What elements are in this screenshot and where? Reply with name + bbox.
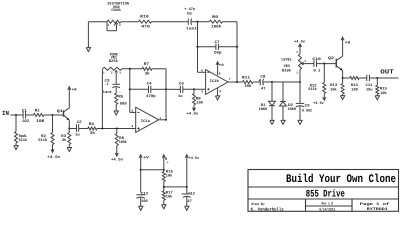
svg-text:10u: 10u <box>366 88 373 93</box>
resistor R1 <box>34 108 45 124</box>
resistor R17 <box>162 191 173 205</box>
resistor R14 <box>350 77 359 93</box>
svg-text:+9: +9 <box>345 40 351 45</box>
wire <box>253 81 260 83</box>
svg-text:OUT: OUT <box>380 69 394 76</box>
wire <box>342 41 344 56</box>
node <box>236 46 238 48</box>
wire <box>129 69 131 113</box>
svg-text:10K: 10K <box>36 119 45 124</box>
node <box>116 127 118 129</box>
svg-text:1N60: 1N60 <box>259 107 268 112</box>
ground pin4 <box>215 88 221 100</box>
node <box>299 81 301 83</box>
wire <box>88 21 107 23</box>
ground <box>67 148 71 152</box>
svg-text:+9: +9 <box>72 87 78 92</box>
resistor R7 <box>142 62 152 76</box>
wire <box>183 88 206 90</box>
potentiometer VR3 LEVEL <box>281 51 314 75</box>
node <box>342 77 344 79</box>
power +9 <box>341 37 351 45</box>
wire <box>44 114 63 116</box>
svg-text:R1: R1 <box>35 108 41 113</box>
svg-text:511k: 511k <box>308 87 317 92</box>
ground <box>375 96 379 100</box>
wire output <box>159 119 166 121</box>
power +4.5v <box>313 94 326 106</box>
node <box>323 63 325 65</box>
capacitor C13 <box>136 191 148 206</box>
svg-text:B25k: B25k <box>109 59 119 64</box>
svg-text:.47: .47 <box>259 86 267 91</box>
wire pin2 <box>130 111 136 113</box>
wire <box>198 21 210 23</box>
svg-text:100: 100 <box>141 199 148 204</box>
svg-text:R9: R9 <box>212 15 219 20</box>
svg-text:1u: 1u <box>75 133 80 138</box>
svg-text:Q1: Q1 <box>57 109 64 114</box>
resistor R11 <box>242 75 253 89</box>
resistor R10 <box>139 14 152 29</box>
wire <box>130 88 149 90</box>
wire <box>186 160 188 193</box>
capacitor C10 <box>312 57 321 74</box>
resistor R13 <box>330 78 344 96</box>
diode D2 <box>280 82 297 120</box>
node <box>196 46 198 48</box>
wire <box>87 22 89 48</box>
capacitor C1 <box>20 108 30 124</box>
resistor RPDL <box>15 115 28 146</box>
svg-text:R7: R7 <box>144 62 150 67</box>
wire <box>101 69 103 129</box>
node <box>15 114 17 116</box>
wire output <box>228 81 243 83</box>
capacitor C7 <box>214 40 223 56</box>
diode D1 <box>259 82 276 120</box>
wire <box>223 21 238 23</box>
wire <box>166 88 180 90</box>
svg-text:7: 7 <box>229 78 231 81</box>
svg-text:10k: 10k <box>166 173 173 178</box>
power +4.5v <box>185 155 199 161</box>
node feedback-left <box>196 21 198 23</box>
wire <box>152 68 166 70</box>
svg-text:100k: 100k <box>211 24 222 29</box>
op-amp IC1a <box>132 107 162 132</box>
svg-text:855 Drive: 855 Drive <box>306 188 345 200</box>
svg-text:10k: 10k <box>330 88 337 93</box>
svg-text:4: 4 <box>219 90 221 93</box>
potentiometer VR1 TONE <box>103 52 122 83</box>
ground <box>114 111 118 115</box>
wire <box>11 114 24 116</box>
svg-text:C2: C2 <box>77 120 83 125</box>
ground <box>139 206 143 210</box>
wire <box>164 186 187 188</box>
transistor Q1 <box>57 108 70 121</box>
ground <box>340 96 344 100</box>
ground <box>14 146 18 150</box>
wire <box>121 21 139 23</box>
capacitor C12 <box>181 191 195 206</box>
wire <box>283 81 300 83</box>
ground <box>270 120 274 124</box>
wire <box>198 46 216 48</box>
resistor R3 <box>61 129 71 148</box>
svg-text:10k: 10k <box>196 100 204 105</box>
node <box>140 169 142 171</box>
svg-text:C9: C9 <box>305 103 311 108</box>
wire <box>141 169 164 171</box>
svg-text:R13: R13 <box>330 83 338 88</box>
svg-text:+: + <box>167 161 169 165</box>
svg-text:K. Vonderhulls: K. Vonderhulls <box>251 207 284 213</box>
power +4.5v <box>294 40 306 54</box>
transistor Q2 <box>328 56 343 71</box>
capacitor C6 <box>184 7 197 31</box>
svg-text:470: 470 <box>141 25 150 30</box>
svg-text:C11: C11 <box>366 83 374 88</box>
capacitor C3 <box>103 78 120 95</box>
svg-text:tant: tant <box>186 26 197 31</box>
svg-text:VR3: VR3 <box>284 64 291 69</box>
op-amp IC1b <box>201 70 231 95</box>
wire <box>369 77 398 79</box>
svg-text:680: 680 <box>120 101 128 106</box>
svg-text:.1: .1 <box>105 82 110 87</box>
svg-text:20p: 20p <box>214 51 223 56</box>
resistor R12 <box>308 64 326 94</box>
svg-text:+4.5v: +4.5v <box>186 111 199 116</box>
capacitor C5 <box>178 81 185 99</box>
resistor R15 <box>376 78 388 96</box>
node <box>193 88 195 90</box>
svg-text:R14: R14 <box>351 83 359 88</box>
svg-text:IC1b: IC1b <box>210 79 220 84</box>
svg-text:Build Your Own Clone: Build Your Own Clone <box>286 173 396 186</box>
wire <box>97 128 136 130</box>
wire <box>218 46 237 48</box>
node <box>376 77 378 79</box>
node <box>165 119 167 121</box>
svg-text:3k: 3k <box>145 72 151 77</box>
svg-text:C6: C6 <box>187 12 193 17</box>
svg-text:C4: C4 <box>147 81 153 86</box>
node <box>163 169 165 171</box>
svg-text:Drawn By:: Drawn By: <box>252 202 266 207</box>
wire <box>26 114 34 116</box>
svg-text:6/14/2011: 6/14/2011 <box>319 208 336 213</box>
wire <box>342 71 344 79</box>
svg-text:+4.5v: +4.5v <box>313 101 324 106</box>
power +4.5v <box>186 105 199 116</box>
power +V <box>139 155 149 161</box>
svg-text:47: 47 <box>187 199 192 204</box>
svg-text:C500k: C500k <box>111 8 121 13</box>
wire <box>317 63 337 65</box>
potentiometer VR2 DISTORTION <box>107 2 129 31</box>
node <box>236 81 238 83</box>
wire <box>68 91 70 108</box>
svg-text:100: 100 <box>351 88 358 93</box>
wire <box>68 120 70 128</box>
svg-text:+4.5v: +4.5v <box>111 157 124 162</box>
svg-text:3k: 3k <box>62 138 67 143</box>
wire <box>163 182 165 191</box>
svg-text:511k: 511k <box>19 138 28 143</box>
node <box>271 81 273 83</box>
power +4.5v <box>47 145 61 161</box>
wire <box>343 77 350 79</box>
svg-text:5: 5 <box>201 91 203 94</box>
resistor R2 <box>38 115 54 145</box>
svg-text:10k: 10k <box>244 84 252 89</box>
svg-text:+4.5v: +4.5v <box>47 155 61 160</box>
svg-text:R10: R10 <box>140 14 149 19</box>
svg-text:R5: R5 <box>118 94 124 99</box>
wire <box>115 87 117 93</box>
svg-text:1N60: 1N60 <box>288 107 297 112</box>
resistor R9 <box>210 15 223 30</box>
svg-text:+4.5v: +4.5v <box>189 156 200 161</box>
wire <box>359 77 367 79</box>
capacitor C2 <box>75 120 82 138</box>
wire <box>197 22 199 73</box>
wire <box>69 128 76 130</box>
svg-text:B10k: B10k <box>282 69 292 74</box>
wire <box>122 68 142 70</box>
svg-text:IC1a: IC1a <box>141 119 151 124</box>
svg-text:.022: .022 <box>20 119 30 124</box>
svg-text:10k: 10k <box>166 195 173 200</box>
svg-text:C13: C13 <box>141 191 149 196</box>
wire <box>79 128 88 130</box>
resistor R5 <box>115 93 128 111</box>
svg-text:R15: R15 <box>380 86 388 91</box>
svg-text:8: 8 <box>219 72 221 75</box>
node <box>68 127 70 129</box>
svg-text:C5: C5 <box>179 81 185 86</box>
wire <box>272 81 283 83</box>
svg-text:Page 1 of: Page 1 of <box>360 202 391 207</box>
title block frame <box>248 170 399 212</box>
wire <box>263 81 272 83</box>
capacitor C4 <box>146 81 156 99</box>
node <box>51 114 53 116</box>
wire <box>236 22 238 82</box>
svg-text:1u: 1u <box>178 94 183 99</box>
svg-text:+V: +V <box>143 156 149 161</box>
wire <box>165 69 167 120</box>
svg-text:470p: 470p <box>146 94 156 99</box>
capacitor C11 <box>366 75 374 93</box>
svg-text:10k: 10k <box>380 91 387 96</box>
node <box>163 186 165 188</box>
ground <box>281 120 285 124</box>
svg-text:IN: IN <box>2 110 9 117</box>
capacitor C8 <box>258 75 266 92</box>
svg-text:LEVEL: LEVEL <box>281 57 292 62</box>
power +9 <box>162 155 168 165</box>
svg-text:511k: 511k <box>38 138 48 143</box>
svg-text:3: 3 <box>132 125 134 128</box>
power +4.5v <box>111 146 124 163</box>
svg-text:Q2: Q2 <box>328 56 335 61</box>
resistor R4 <box>88 122 97 136</box>
ground <box>86 48 90 52</box>
ground <box>162 205 166 209</box>
node <box>186 186 188 188</box>
wire <box>163 159 165 171</box>
svg-text:C7: C7 <box>215 40 221 45</box>
svg-text:0.002: 0.002 <box>302 108 313 113</box>
svg-text:tant: tant <box>103 90 112 95</box>
node <box>101 127 103 129</box>
wire <box>299 70 301 83</box>
svg-text:0.1: 0.1 <box>313 69 321 74</box>
svg-text:Rev 1.0: Rev 1.0 <box>322 202 334 207</box>
node <box>129 68 131 70</box>
resistor R8 <box>193 89 204 105</box>
svg-text:+9: +9 <box>219 63 224 68</box>
wire <box>191 21 198 23</box>
resistor R16 <box>162 170 173 182</box>
ground <box>298 120 302 124</box>
resistor R6 <box>115 129 127 146</box>
svg-text:+.47u: +.47u <box>184 7 196 12</box>
wire <box>152 21 189 23</box>
power +9 pin8 <box>216 62 224 76</box>
svg-text:BYTROD1: BYTROD1 <box>367 207 389 212</box>
wire <box>151 88 166 90</box>
node <box>129 88 131 90</box>
svg-text:3k: 3k <box>90 131 96 136</box>
wire <box>140 160 142 193</box>
svg-text:100k: 100k <box>119 140 128 145</box>
wire pin6 <box>198 71 206 73</box>
capacitor C9 <box>296 82 313 120</box>
ground <box>185 206 189 210</box>
power +9 <box>68 87 78 93</box>
node <box>165 88 167 90</box>
